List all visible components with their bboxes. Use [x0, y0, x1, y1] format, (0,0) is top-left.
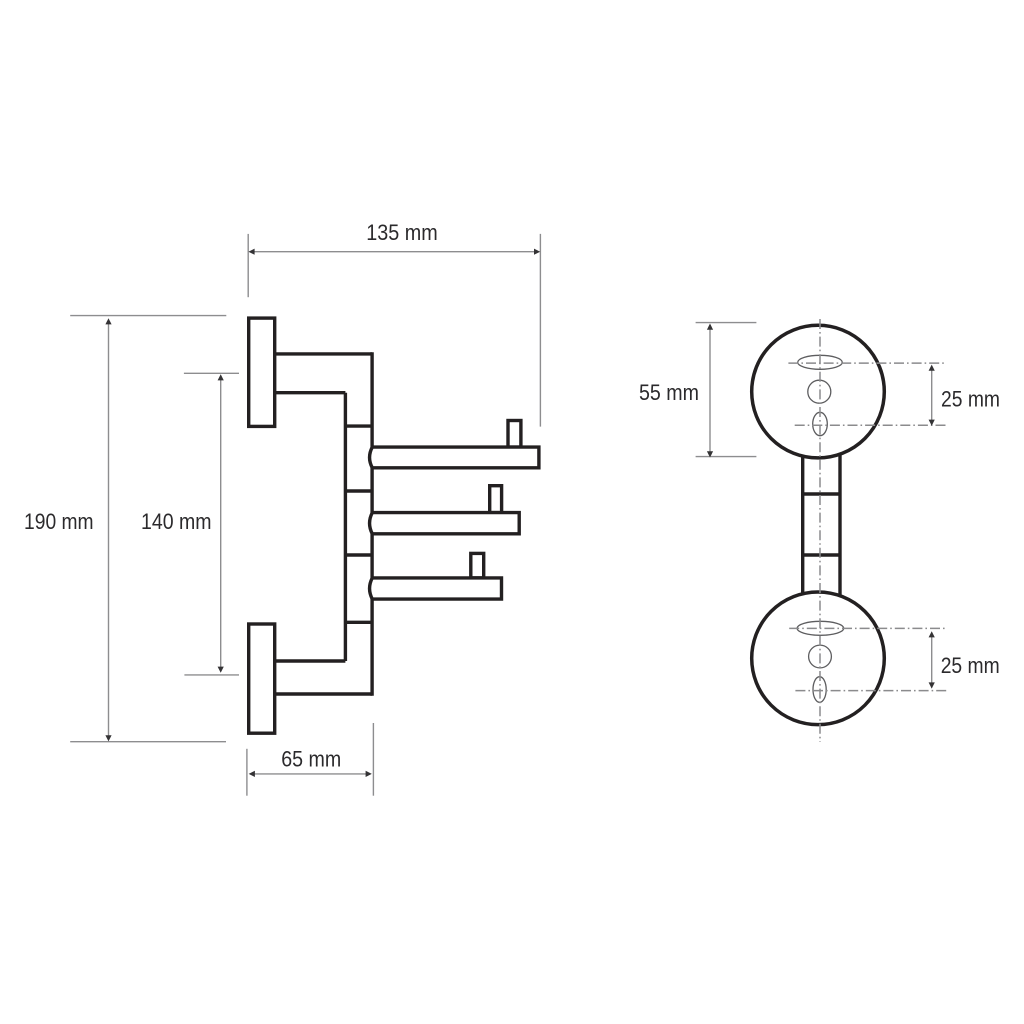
pivot column divider 3: [345, 553, 372, 556]
dimension 65 mm: left arrowhead: [249, 771, 255, 777]
hook pin 2: [490, 486, 502, 513]
bottom rosette circle: [752, 592, 885, 725]
dimension 190 mm: dimension line: [108, 320, 110, 740]
hook pin 3: [471, 553, 484, 578]
dimension 190 mm: top arrowhead: [105, 318, 111, 324]
top rosette: screw hole circle: [808, 380, 831, 403]
svg-text:135 mm: 135 mm: [366, 220, 438, 245]
hook body: pivot column left edge: [344, 393, 347, 661]
top rosette: upper slot ellipse: [798, 355, 843, 369]
dimension 135 mm: extension line right: [539, 234, 541, 427]
dimension 55 mm: dimension line: [709, 325, 711, 456]
dimension 140 mm: bottom arrowhead: [218, 667, 224, 673]
bottom rosette: upper slot ellipse: [797, 621, 844, 635]
dimension 25 mm bottom: dimension line: [931, 633, 933, 688]
svg-text:55 mm: 55 mm: [639, 380, 699, 405]
dimension 55 mm: extension line top: [696, 322, 757, 324]
dimension 25 mm bottom: top arrowhead: [929, 631, 935, 637]
top rosette circle: [752, 325, 885, 458]
svg-text:25 mm: 25 mm: [941, 653, 1000, 678]
dimension 65 mm: dimension line: [250, 773, 370, 775]
svg-text:65 mm: 65 mm: [281, 746, 341, 771]
dimension 55 mm: bottom arrowhead: [707, 451, 713, 457]
horizontal centerline through top rosette lower hole: [795, 424, 947, 426]
dimension 140 mm: extension line top: [184, 372, 239, 374]
svg-text:140 mm: 140 mm: [141, 509, 212, 534]
vertical centerline (dash-dot): [819, 319, 821, 742]
dimension 140 mm: extension line bottom: [184, 674, 239, 676]
dimension 25 mm top: dimension line: [931, 366, 933, 425]
hook body: lower arm top edge: [275, 659, 346, 662]
connecting bar divider 1: [803, 492, 840, 495]
dimension 135 mm: left arrowhead: [248, 249, 254, 255]
wall plate bottom (side view): [249, 624, 275, 733]
hook body: upper arm top edge: [275, 352, 372, 355]
hook pin 1: [508, 421, 521, 448]
dimension 25 mm bottom: bottom arrowhead: [929, 682, 935, 688]
dimension 135 mm: extension line left: [247, 234, 249, 297]
dimension 65 mm: extension line right: [372, 723, 374, 796]
top rosette: lower slot ellipse: [813, 412, 828, 435]
connecting bar between rosettes: [803, 450, 840, 597]
pivot column divider 4: [345, 621, 372, 624]
horizontal centerline through bottom rosette lower hole: [795, 690, 946, 692]
dimension 135 mm: dimension line: [250, 251, 539, 253]
dimension 135 mm: right arrowhead: [534, 249, 540, 255]
hook bar 2 (middle swivel hook): [370, 513, 520, 534]
horizontal centerline through top rosette upper hole: [788, 362, 946, 364]
dimension 65 mm: extension line left: [246, 749, 248, 796]
dimension 55 mm: extension line bottom: [696, 456, 757, 458]
hook bar 3 (bottom swivel hook): [370, 578, 502, 599]
connecting bar divider 2: [803, 553, 840, 556]
pivot column divider 1: [345, 424, 372, 427]
dimension 140 mm: dimension line: [220, 376, 222, 671]
hook body: upper arm bottom edge: [275, 391, 346, 394]
hook body: lower arm bottom edge: [275, 692, 372, 695]
dimension 55 mm: top arrowhead: [707, 324, 713, 330]
pivot column divider 2: [345, 489, 372, 492]
svg-text:190 mm: 190 mm: [24, 509, 94, 534]
hook body: pivot column right edge: [370, 352, 373, 696]
bottom rosette: screw hole circle: [809, 645, 832, 668]
dimension 190 mm: extension line bottom: [70, 741, 226, 743]
dimension 25 mm top: top arrowhead: [929, 365, 935, 371]
dimension 140 mm: top arrowhead: [218, 374, 224, 380]
wall plate top (side view): [249, 318, 275, 426]
dimension 65 mm: right arrowhead: [366, 771, 372, 777]
dimension 190 mm: bottom arrowhead: [105, 735, 111, 741]
bottom rosette: lower slot ellipse: [813, 677, 826, 703]
horizontal centerline through bottom rosette upper hole: [789, 627, 946, 629]
hook bar 1 (top swivel hook): [370, 447, 539, 468]
dimension 25 mm top: bottom arrowhead: [929, 420, 935, 426]
svg-text:25 mm: 25 mm: [941, 387, 1000, 412]
dimension 190 mm: extension line top: [70, 315, 226, 317]
